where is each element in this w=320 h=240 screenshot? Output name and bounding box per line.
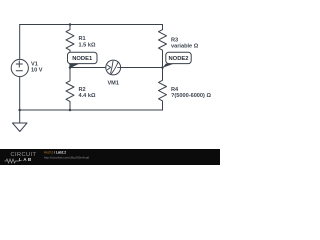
svg-text:1.5 kΩ: 1.5 kΩ bbox=[79, 43, 96, 49]
svg-text:?(5000-6000) Ω: ?(5000-6000) Ω bbox=[171, 93, 211, 99]
svg-text:NODE2: NODE2 bbox=[169, 56, 189, 62]
svg-text:R3: R3 bbox=[171, 37, 178, 43]
svg-text:R4: R4 bbox=[171, 87, 179, 93]
svg-text:R1: R1 bbox=[79, 36, 86, 42]
svg-text:10 V: 10 V bbox=[31, 67, 43, 73]
svg-text:NODE1: NODE1 bbox=[72, 56, 93, 62]
svg-text:4.4 kΩ: 4.4 kΩ bbox=[79, 93, 96, 99]
svg-text:VM1: VM1 bbox=[107, 81, 119, 87]
svg-text:R2: R2 bbox=[79, 87, 86, 93]
svg-text:variable Ω: variable Ω bbox=[171, 44, 199, 50]
